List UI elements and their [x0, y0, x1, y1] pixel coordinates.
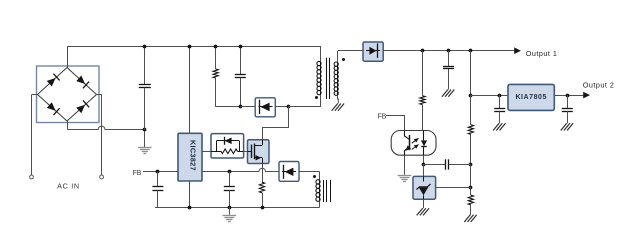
svg-text:KIA7805: KIA7805	[515, 94, 546, 101]
svg-text:FB: FB	[133, 170, 142, 177]
svg-text:Output 1: Output 1	[526, 49, 558, 58]
svg-text:FB: FB	[378, 113, 387, 120]
svg-text:Output 2: Output 2	[583, 81, 615, 90]
svg-text:AC IN: AC IN	[57, 181, 80, 190]
svg-text:KIC3827: KIC3827	[189, 140, 198, 171]
